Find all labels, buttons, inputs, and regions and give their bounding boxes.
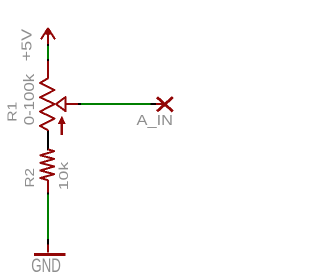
svg-text:GND: GND [31, 256, 61, 274]
ground symbol [34, 245, 66, 255]
wire R1 to R2 (black overlap) [47, 131, 49, 150]
svg-text:10k: 10k [56, 161, 71, 190]
svg-text:A_IN: A_IN [137, 112, 174, 129]
resistor R2 [40, 149, 54, 192]
svg-text:R2: R2 [23, 168, 37, 188]
zigzag body [40, 149, 54, 180]
pin A_IN (X symbol) [156, 97, 173, 111]
wiper lead [66, 103, 79, 105]
zigzag body [40, 78, 55, 130]
wire R1 wiper to A_IN (green with black overlaps) [78, 103, 156, 105]
pin top [47, 61, 49, 78]
pin bottom [47, 130, 49, 134]
potentiometer R1 [40, 61, 78, 135]
wiper triangle [56, 97, 66, 111]
adjustment arrow [61, 124, 63, 135]
svg-text:+5V: +5V [18, 29, 35, 62]
pin bottom [47, 180, 49, 193]
wire R2 to GND (green with black overlaps) [47, 193, 49, 245]
supply +5V arrow symbol [41, 28, 55, 44]
wire +5V to R1 (green with black overlaps) [47, 44, 49, 61]
svg-text:R1: R1 [6, 102, 20, 122]
svg-text:0-100k: 0-100k [21, 73, 38, 125]
